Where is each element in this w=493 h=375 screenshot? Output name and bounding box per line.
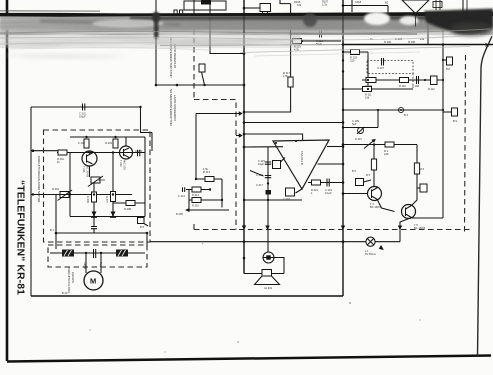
svg-text:CHISPA: CHISPA xyxy=(71,272,75,283)
svg-text:B 3: B 3 xyxy=(404,113,408,117)
svg-text:Rojo: Rojo xyxy=(99,262,103,268)
svg-text:C 216: C 216 xyxy=(256,173,263,177)
svg-text:1,5k: 1,5k xyxy=(283,74,289,78)
svg-text:Negro: Negro xyxy=(83,262,87,270)
svg-text:0,1µF: 0,1µF xyxy=(325,191,332,195)
svg-text:B 6: B 6 xyxy=(352,169,356,173)
svg-text:R 215: R 215 xyxy=(192,204,199,208)
svg-text:CIRCUITO FILTRO: CIRCUITO FILTRO xyxy=(67,267,71,293)
svg-text:R 214: R 214 xyxy=(192,193,199,197)
svg-text:6V 50mA: 6V 50mA xyxy=(365,252,376,256)
svg-text:B 8: B 8 xyxy=(446,67,450,71)
svg-text:M1 MICROINTERRUPTOR: M1 MICROINTERRUPTOR xyxy=(169,89,173,126)
svg-text:22k: 22k xyxy=(420,37,425,41)
svg-text:B2: B2 xyxy=(385,0,389,4)
svg-text:5µF: 5µF xyxy=(352,122,357,126)
svg-text:10µF: 10µF xyxy=(258,162,264,166)
svg-text:1k: 1k xyxy=(370,37,373,41)
svg-text:MIC 502: MIC 502 xyxy=(123,160,127,170)
svg-text:C 108: C 108 xyxy=(412,84,419,88)
svg-text:R 109: R 109 xyxy=(365,84,372,88)
svg-text:R 108: R 108 xyxy=(408,40,415,44)
svg-text:R 204: R 204 xyxy=(52,187,59,191)
svg-text:B 209: B 209 xyxy=(176,212,183,216)
svg-text:T 201: T 201 xyxy=(82,166,86,173)
svg-text:R 206: R 206 xyxy=(86,196,90,203)
svg-text:R 6: R 6 xyxy=(420,167,425,171)
svg-text:R 207: R 207 xyxy=(105,196,109,203)
svg-text:BC 204 B: BC 204 B xyxy=(86,166,90,177)
svg-text:BC 148 B: BC 148 B xyxy=(414,226,425,230)
svg-text:R 208: R 208 xyxy=(124,207,131,211)
svg-text:R 106: R 106 xyxy=(384,40,391,44)
svg-text:R 5: R 5 xyxy=(366,173,371,177)
svg-text:C 217: C 217 xyxy=(256,183,263,187)
svg-text:C 203: C 203 xyxy=(135,149,142,153)
svg-text:220: 220 xyxy=(350,59,355,63)
svg-text:R 203: R 203 xyxy=(105,141,112,145)
svg-text:0,5µF: 0,5µF xyxy=(79,115,86,119)
svg-text:TAA 611 B: TAA 611 B xyxy=(300,151,304,165)
svg-text:10k: 10k xyxy=(365,96,370,100)
svg-text:220: 220 xyxy=(384,152,389,156)
svg-text:C 202: C 202 xyxy=(78,141,85,145)
svg-text:50µF: 50µF xyxy=(316,42,322,46)
svg-text:T 202: T 202 xyxy=(119,160,123,167)
svg-text:R 112: R 112 xyxy=(428,87,435,91)
svg-text:1,5k: 1,5k xyxy=(203,167,209,171)
svg-text:B 1: B 1 xyxy=(50,228,54,232)
svg-text:+: + xyxy=(202,243,204,246)
svg-text:C118: C118 xyxy=(355,0,362,4)
svg-text:BC 148 B: BC 148 B xyxy=(370,205,381,209)
svg-text:R 205: R 205 xyxy=(98,178,105,182)
svg-text:R 113: R 113 xyxy=(355,137,362,141)
svg-text:B 20: B 20 xyxy=(62,291,68,295)
svg-text:LADO IZQUIERDO: LADO IZQUIERDO xyxy=(173,95,177,121)
svg-text:10k: 10k xyxy=(297,3,302,7)
svg-text:C 218: C 218 xyxy=(283,197,290,201)
svg-text:B 5: B 5 xyxy=(140,225,144,229)
svg-text:1,2k: 1,2k xyxy=(322,3,328,7)
svg-text:M: M xyxy=(90,277,96,286)
svg-text:C 212: C 212 xyxy=(178,194,185,198)
svg-text:B 9: B 9 xyxy=(453,119,457,123)
svg-text:CIRCUITO REGULADOR MOTOR: CIRCUITO REGULADOR MOTOR xyxy=(37,156,41,203)
svg-text:“TELEFUNKEN” KR-81: “TELEFUNKEN” KR-81 xyxy=(15,180,26,295)
svg-text:C 107: C 107 xyxy=(377,66,384,70)
svg-text:AL 201: AL 201 xyxy=(264,286,273,290)
svg-text:R 110: R 110 xyxy=(399,84,406,88)
